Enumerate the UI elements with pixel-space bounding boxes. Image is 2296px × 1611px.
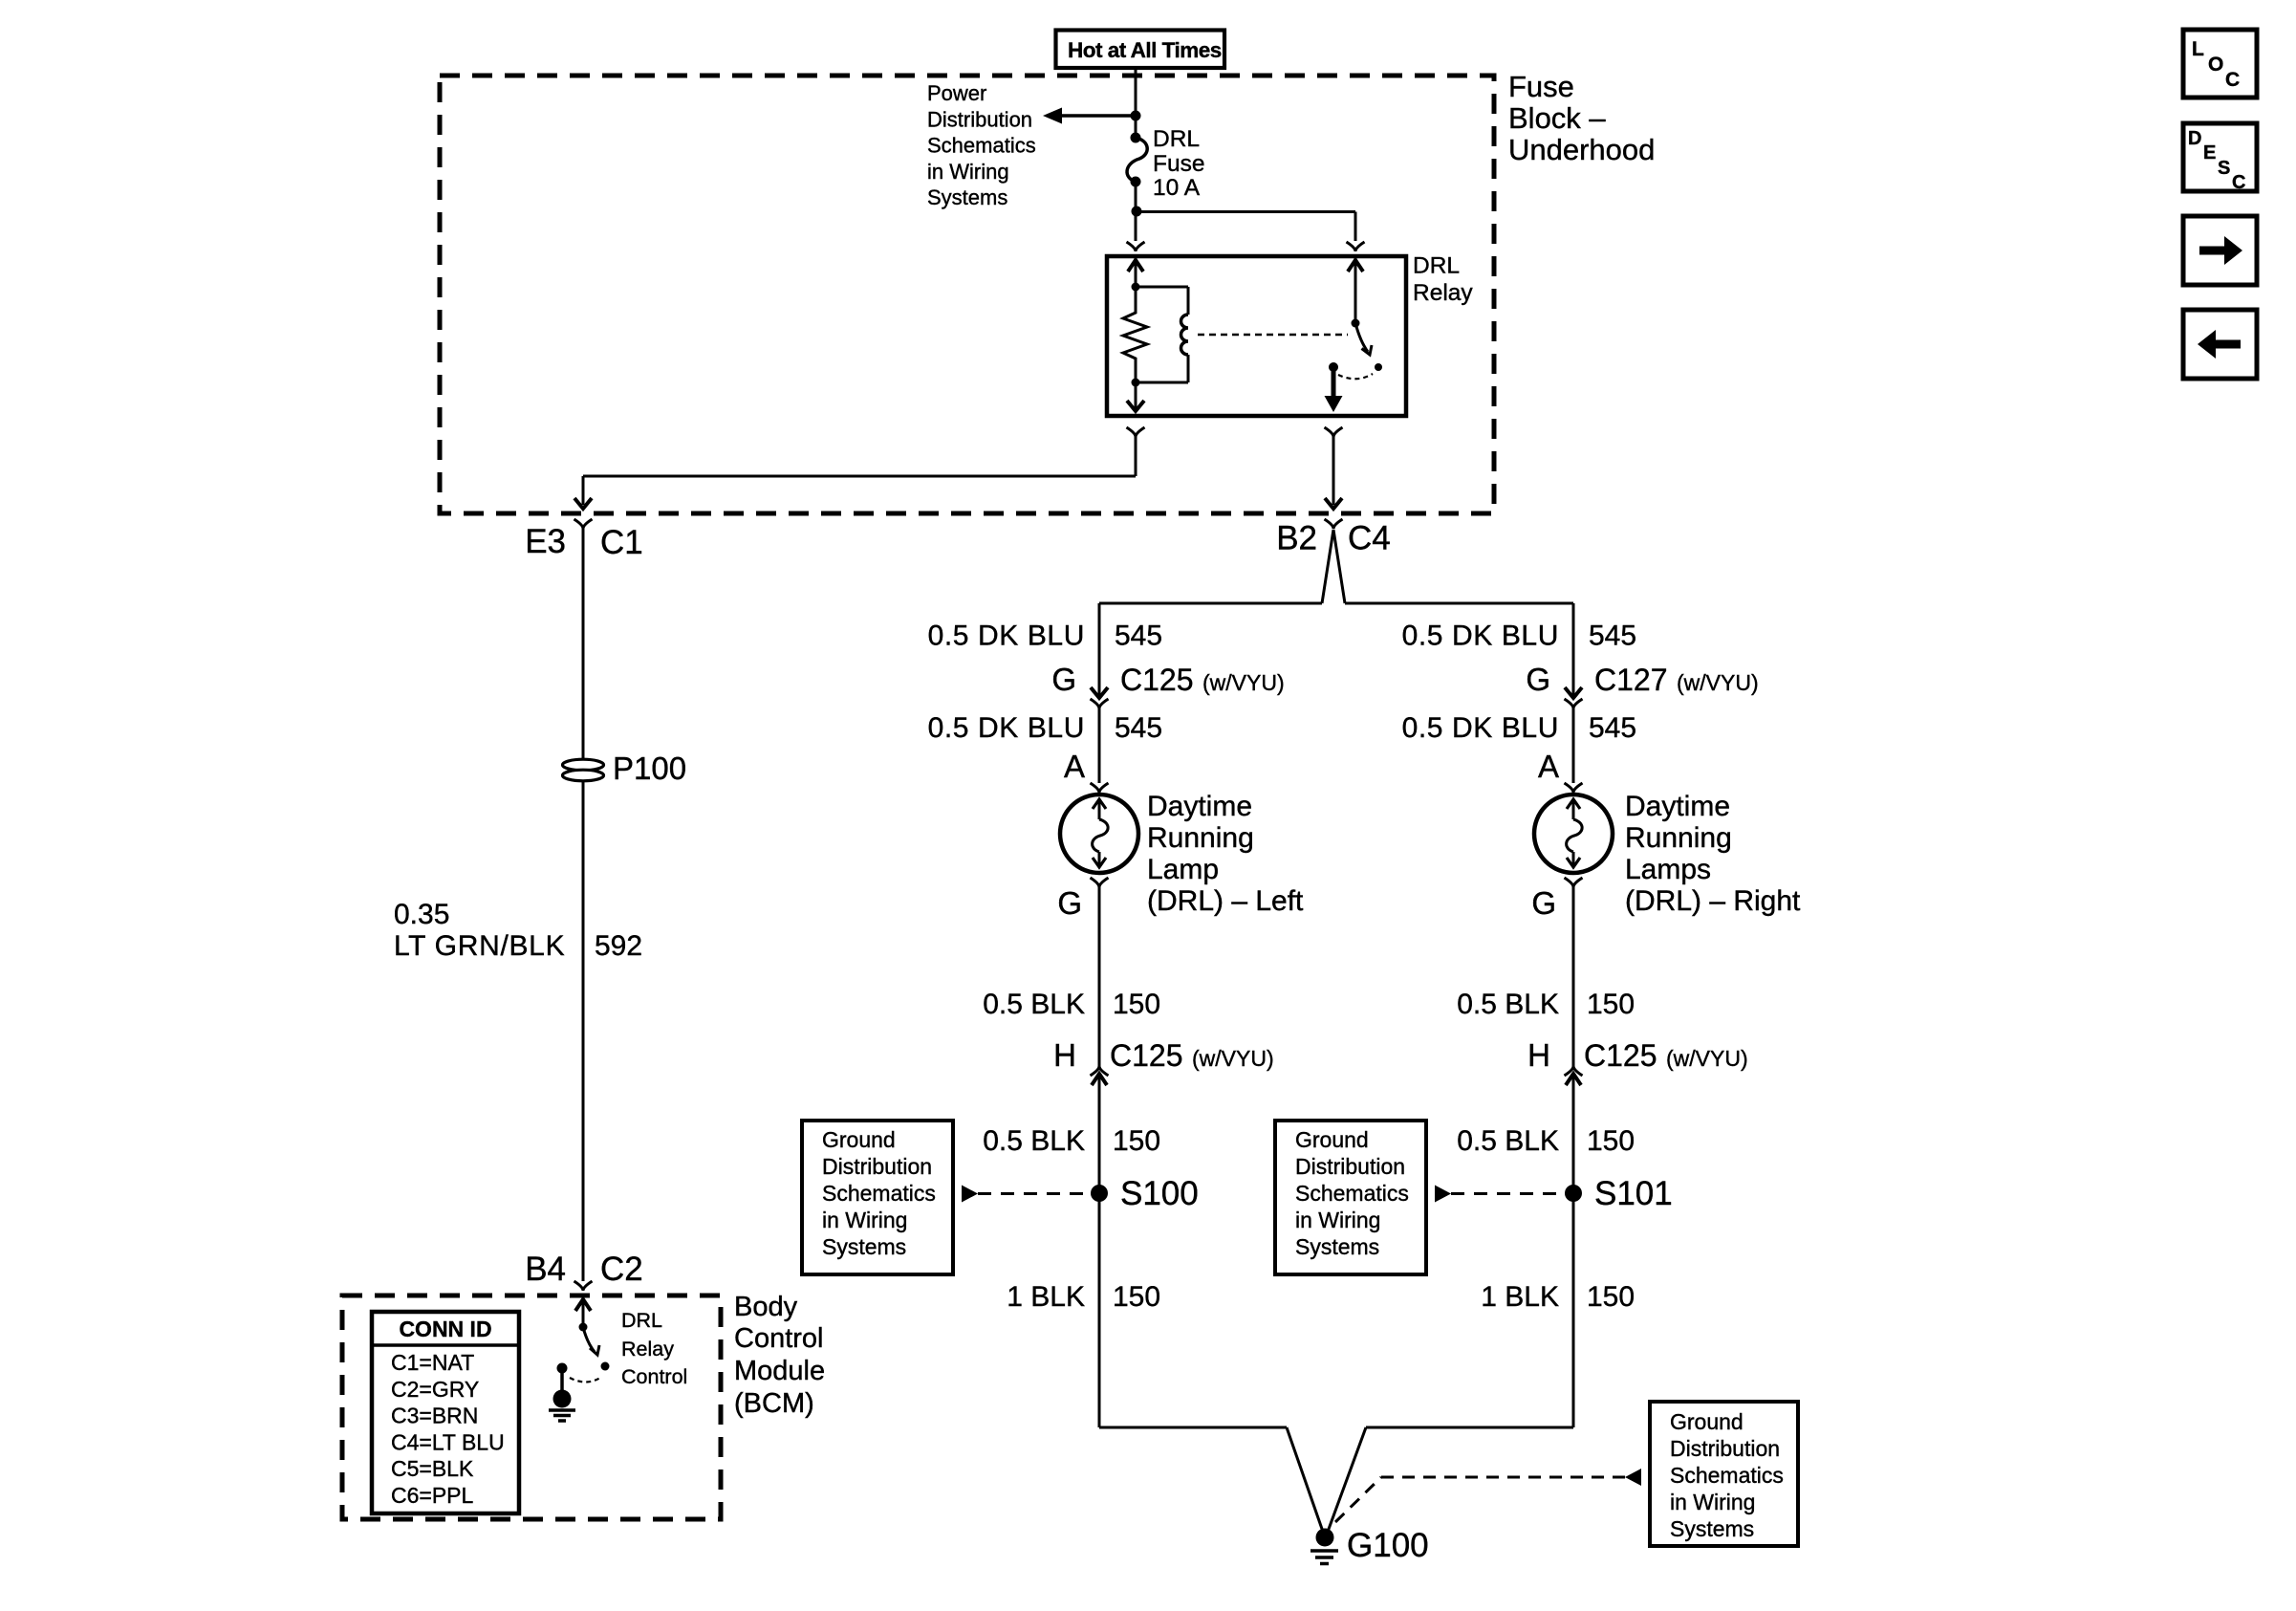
svg-text:in Wiring: in Wiring [1670, 1490, 1755, 1514]
svg-text:545: 545 [1115, 712, 1162, 744]
svg-text:G: G [1526, 662, 1550, 697]
svg-text:Schematics: Schematics [1670, 1463, 1784, 1488]
svg-text:0.5 DK BLU: 0.5 DK BLU [1402, 620, 1559, 652]
svg-text:0.35: 0.35 [394, 899, 449, 930]
svg-text:Systems: Systems [1295, 1234, 1379, 1259]
svg-text:Ground: Ground [1670, 1409, 1744, 1434]
svg-text:C1: C1 [600, 524, 643, 561]
svg-text:LT GRN/BLK: LT GRN/BLK [394, 930, 565, 962]
svg-text:G: G [1051, 662, 1076, 697]
svg-text:Systems: Systems [927, 185, 1007, 209]
svg-text:1 BLK: 1 BLK [1007, 1281, 1085, 1313]
svg-text:C3=BRN: C3=BRN [391, 1404, 478, 1428]
svg-text:DRL: DRL [621, 1309, 662, 1332]
svg-text:Control: Control [734, 1323, 824, 1354]
svg-text:Systems: Systems [1670, 1516, 1754, 1541]
svg-text:150: 150 [1587, 989, 1635, 1020]
svg-text:C2: C2 [600, 1251, 643, 1288]
svg-text:1 BLK: 1 BLK [1481, 1281, 1559, 1313]
svg-text:Fuse: Fuse [1153, 151, 1204, 177]
svg-text:P100: P100 [613, 751, 686, 786]
svg-text:in Wiring: in Wiring [822, 1208, 907, 1232]
svg-text:DRL: DRL [1413, 253, 1460, 279]
svg-text:in Wiring: in Wiring [927, 160, 1009, 184]
svg-text:Distribution: Distribution [927, 107, 1032, 131]
svg-text:G: G [1531, 885, 1556, 921]
svg-text:Module: Module [734, 1356, 825, 1386]
svg-text:H: H [1053, 1037, 1076, 1073]
svg-text:S100: S100 [1120, 1175, 1199, 1212]
svg-text:(w/VYU): (w/VYU) [1202, 670, 1285, 695]
svg-text:CONN ID: CONN ID [399, 1317, 491, 1341]
svg-text:O: O [2208, 54, 2223, 76]
svg-text:DRL: DRL [1153, 126, 1200, 152]
svg-text:C2=GRY: C2=GRY [391, 1377, 479, 1402]
svg-text:(w/VYU): (w/VYU) [1677, 670, 1759, 695]
svg-text:(DRL) – Left: (DRL) – Left [1147, 885, 1304, 917]
svg-text:Running: Running [1625, 822, 1732, 854]
svg-text:0.5 BLK: 0.5 BLK [983, 989, 1085, 1020]
svg-text:Relay: Relay [621, 1338, 674, 1361]
svg-text:150: 150 [1113, 1281, 1160, 1313]
svg-text:150: 150 [1113, 989, 1160, 1020]
svg-text:Schematics: Schematics [927, 134, 1036, 158]
svg-text:0.5 BLK: 0.5 BLK [1457, 1125, 1559, 1157]
svg-text:E3: E3 [525, 523, 566, 560]
svg-text:Daytime: Daytime [1625, 791, 1730, 822]
svg-text:Distribution: Distribution [1670, 1436, 1780, 1461]
svg-text:(w/VYU): (w/VYU) [1666, 1046, 1748, 1071]
svg-text:545: 545 [1589, 620, 1636, 652]
svg-text:0.5 DK BLU: 0.5 DK BLU [1402, 712, 1559, 744]
svg-text:B4: B4 [525, 1251, 566, 1288]
svg-text:S: S [2218, 158, 2230, 179]
svg-text:545: 545 [1115, 620, 1162, 652]
svg-text:Daytime: Daytime [1147, 791, 1252, 822]
svg-text:Block –: Block – [1508, 101, 1606, 135]
svg-text:Ground: Ground [822, 1127, 896, 1152]
svg-text:(BCM): (BCM) [734, 1388, 814, 1419]
svg-text:Distribution: Distribution [1295, 1154, 1405, 1179]
svg-text:Lamp: Lamp [1147, 854, 1219, 885]
svg-text:150: 150 [1113, 1125, 1160, 1157]
svg-text:Distribution: Distribution [822, 1154, 932, 1179]
svg-text:G: G [1057, 885, 1082, 921]
svg-text:Schematics: Schematics [1295, 1181, 1409, 1206]
svg-text:C1=NAT: C1=NAT [391, 1350, 474, 1375]
svg-text:C6=PPL: C6=PPL [391, 1483, 474, 1508]
svg-text:Running: Running [1147, 822, 1254, 854]
svg-text:Body: Body [734, 1292, 798, 1322]
svg-text:(w/VYU): (w/VYU) [1192, 1046, 1274, 1071]
svg-text:B2: B2 [1276, 520, 1317, 557]
svg-text:0.5 DK BLU: 0.5 DK BLU [928, 620, 1085, 652]
svg-text:C125: C125 [1120, 663, 1194, 697]
svg-text:592: 592 [595, 930, 642, 962]
svg-text:Ground: Ground [1295, 1127, 1369, 1152]
svg-text:(DRL) – Right: (DRL) – Right [1625, 885, 1801, 917]
svg-text:Schematics: Schematics [822, 1181, 936, 1206]
svg-text:Fuse: Fuse [1508, 70, 1574, 103]
svg-text:Hot at All Times: Hot at All Times [1068, 38, 1222, 62]
svg-text:in Wiring: in Wiring [1295, 1208, 1380, 1232]
svg-text:A: A [1064, 749, 1085, 784]
svg-text:Power: Power [927, 81, 986, 105]
svg-text:C4=LT BLU: C4=LT BLU [391, 1429, 505, 1454]
svg-text:L: L [2192, 38, 2204, 60]
svg-text:C125: C125 [1584, 1038, 1657, 1073]
svg-text:C: C [2225, 69, 2240, 91]
svg-text:0.5 BLK: 0.5 BLK [1457, 989, 1559, 1020]
svg-text:S101: S101 [1594, 1175, 1673, 1212]
svg-text:0.5 DK BLU: 0.5 DK BLU [928, 712, 1085, 744]
svg-text:C127: C127 [1594, 663, 1668, 697]
svg-text:H: H [1527, 1037, 1550, 1073]
svg-text:0.5 BLK: 0.5 BLK [983, 1125, 1085, 1157]
svg-text:150: 150 [1587, 1125, 1635, 1157]
svg-text:545: 545 [1589, 712, 1636, 744]
svg-text:C4: C4 [1348, 520, 1391, 557]
svg-text:C125: C125 [1110, 1038, 1183, 1073]
svg-text:Systems: Systems [822, 1234, 906, 1259]
svg-text:D: D [2188, 128, 2201, 149]
svg-text:E: E [2203, 142, 2216, 163]
svg-text:C5=BLK: C5=BLK [391, 1456, 474, 1481]
svg-text:Relay: Relay [1413, 280, 1473, 306]
svg-text:A: A [1538, 749, 1559, 784]
svg-text:Underhood: Underhood [1508, 133, 1655, 166]
svg-text:Lamps: Lamps [1625, 854, 1711, 885]
svg-text:Control: Control [621, 1365, 687, 1388]
svg-text:10 A: 10 A [1153, 175, 1201, 201]
svg-text:G100: G100 [1347, 1527, 1429, 1564]
svg-text:150: 150 [1587, 1281, 1635, 1313]
svg-text:C: C [2232, 172, 2245, 193]
